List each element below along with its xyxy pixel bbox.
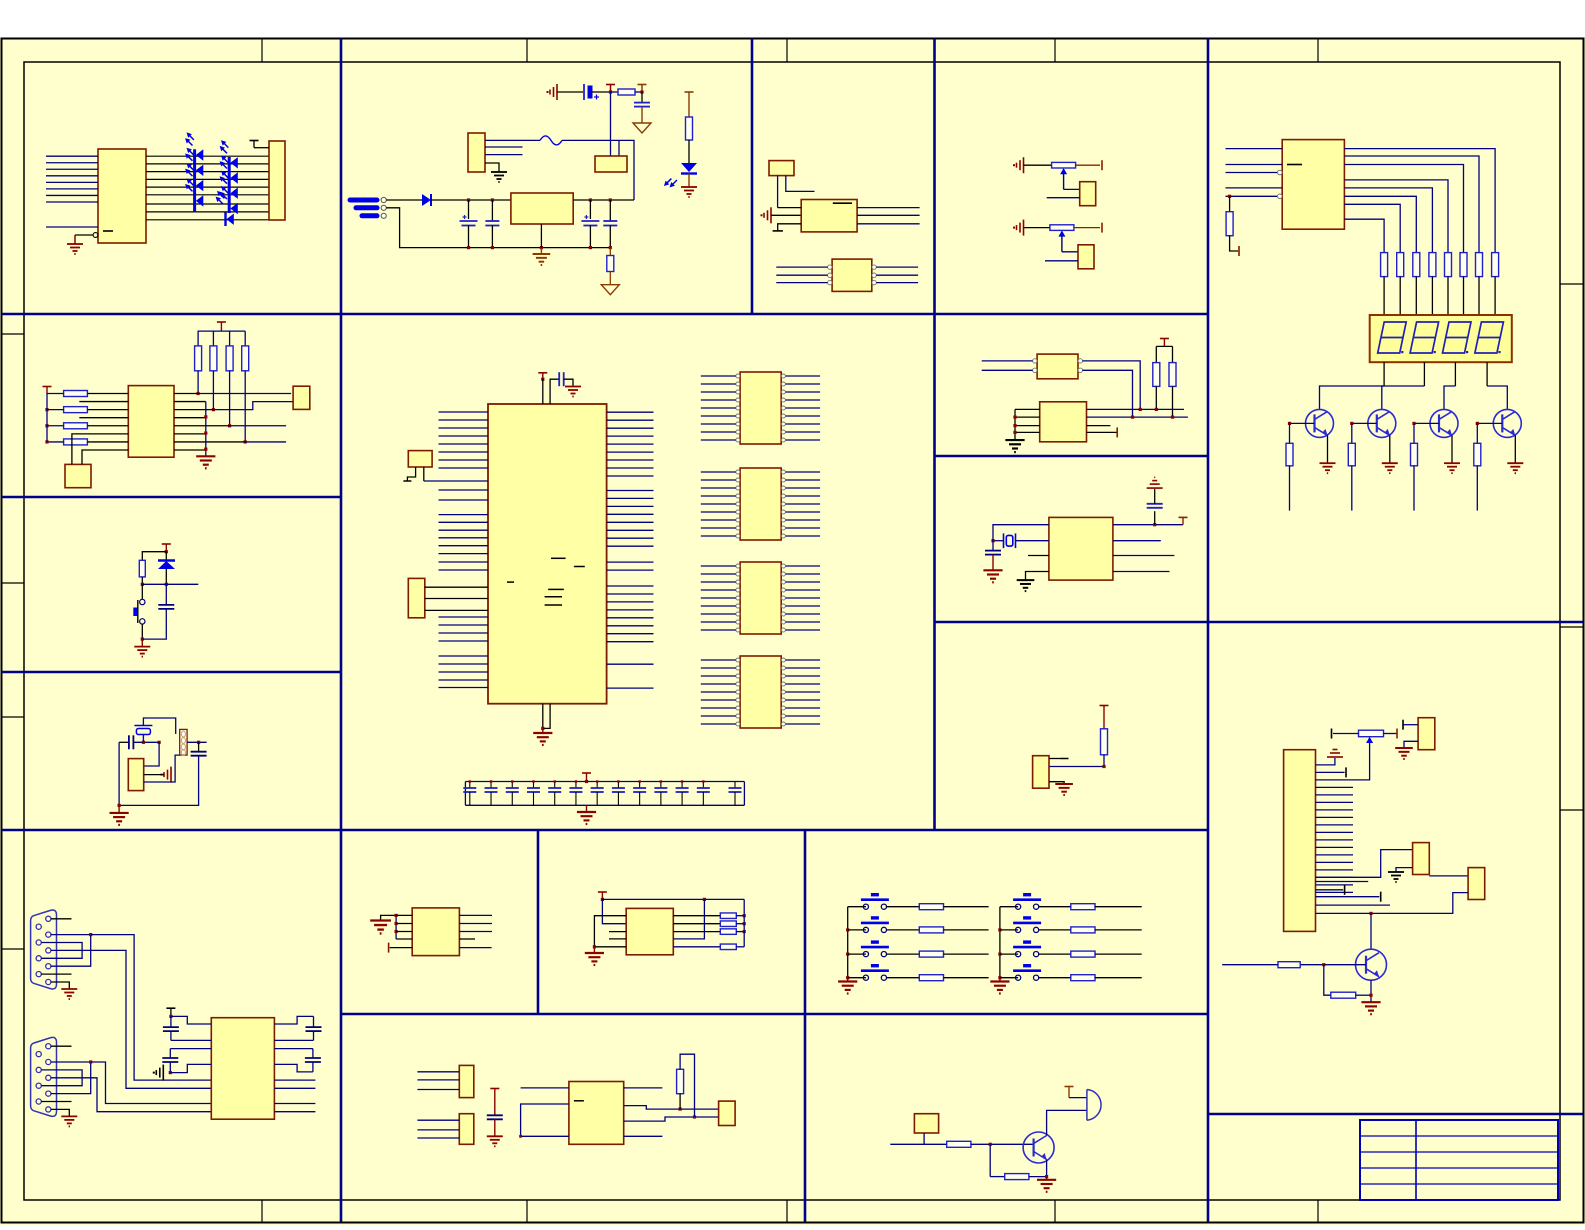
- pin circle: [46, 964, 51, 969]
- junction: [1288, 422, 1291, 425]
- wire: [607, 419, 654, 421]
- LED D6 arrows: [216, 154, 233, 171]
- power bar: [1116, 427, 1118, 437]
- wire: [1000, 977, 1018, 979]
- junction: [45, 408, 48, 411]
- component U6: [1078, 245, 1094, 269]
- wire: [688, 174, 690, 188]
- wire: [229, 371, 231, 426]
- wire: [491, 226, 493, 248]
- pin circle: [736, 682, 740, 686]
- wire: [72, 434, 128, 465]
- U7 pin circle: [1278, 170, 1283, 175]
- wire: [673, 915, 720, 917]
- pin circle: [781, 414, 785, 418]
- transistor Q6: [1356, 949, 1387, 980]
- wire: [87, 441, 128, 443]
- wire: [46, 226, 98, 228]
- capacitor C6: [559, 372, 564, 386]
- wire: [635, 91, 642, 93]
- wire: [786, 659, 821, 661]
- ground: [1507, 463, 1523, 473]
- wire: [1095, 977, 1142, 979]
- wire: [540, 224, 542, 248]
- wire: [609, 931, 626, 933]
- wire: [624, 1087, 663, 1089]
- wire: [439, 467, 489, 469]
- resistor network RN4: [740, 656, 781, 728]
- wire: [146, 219, 269, 221]
- junction: [679, 1108, 682, 1111]
- wire: [1226, 187, 1283, 189]
- digit 3: [1443, 322, 1472, 353]
- wire: [1344, 219, 1384, 252]
- resistor R4: [607, 256, 614, 272]
- wire: [778, 224, 802, 231]
- wire: [776, 266, 827, 268]
- ground: [487, 1136, 503, 1146]
- wire: [1049, 755, 1104, 767]
- LED D9: [681, 163, 697, 172]
- wire: [786, 495, 821, 497]
- pin circle: [46, 979, 51, 984]
- pin circle: [828, 280, 832, 284]
- wire: [439, 624, 489, 626]
- wire: [923, 1133, 925, 1144]
- wire: [1384, 733, 1398, 735]
- power VCC: [1100, 705, 1109, 707]
- wire: [1316, 884, 1354, 886]
- junction: [554, 780, 556, 782]
- junction: [846, 928, 849, 931]
- power bar: [1396, 729, 1398, 739]
- wire: [1316, 850, 1413, 878]
- wire: [485, 146, 523, 148]
- junction: [617, 780, 619, 782]
- wire: [1316, 904, 1391, 906]
- resistor R6: [1381, 253, 1388, 277]
- junction: [197, 392, 200, 395]
- wire: [1046, 1160, 1048, 1177]
- wire: [171, 1039, 211, 1041]
- wire: [386, 199, 422, 201]
- pin circle: [781, 666, 785, 670]
- pin circle: [46, 1059, 51, 1064]
- pin circle: [736, 406, 740, 410]
- wire: [244, 331, 246, 346]
- wire: [542, 379, 544, 404]
- ground: [1395, 748, 1413, 759]
- wire: [1316, 831, 1354, 833]
- wire: [274, 1079, 315, 1081]
- pin circle: [781, 604, 785, 608]
- wire: [146, 194, 269, 196]
- wire: [205, 402, 207, 457]
- ground: [838, 982, 857, 994]
- capacitor C20: [697, 782, 710, 806]
- wire: [439, 663, 489, 665]
- wire: [118, 742, 120, 805]
- power bar: [1101, 160, 1103, 170]
- pin circle: [781, 682, 785, 686]
- wire: [624, 1135, 663, 1137]
- wire: [439, 521, 489, 523]
- pin circle: [1033, 359, 1037, 363]
- wire: [165, 569, 167, 584]
- wire: [786, 613, 821, 615]
- battery BT1: [584, 84, 599, 100]
- zone tick top x787: [786, 39, 788, 63]
- wire: [1014, 409, 1016, 440]
- capacitor C16: [612, 782, 625, 806]
- U7 pin circle: [1278, 194, 1283, 199]
- wire: [46, 162, 98, 164]
- power VCC: [582, 772, 591, 774]
- wire: [1290, 422, 1315, 424]
- junction: [541, 378, 544, 381]
- wire: [46, 188, 98, 190]
- wire: [1316, 891, 1354, 893]
- wire: [701, 431, 736, 433]
- wire: [701, 511, 736, 513]
- zone tick top x1055: [1054, 39, 1056, 63]
- IC U9: [128, 386, 174, 458]
- wire: [1289, 423, 1291, 443]
- wire: [786, 691, 821, 693]
- zone tick right y627: [1560, 626, 1583, 628]
- pin circle: [1033, 368, 1037, 372]
- resistor R35: [919, 975, 943, 981]
- wire: [51, 935, 91, 967]
- wire: [1463, 277, 1465, 315]
- junction: [1369, 912, 1372, 915]
- junction: [1171, 416, 1174, 419]
- wire: [887, 929, 920, 931]
- wire: [174, 417, 206, 419]
- wire: [989, 1144, 991, 1176]
- wiper arrow: [1058, 230, 1065, 236]
- component U23: [1033, 756, 1049, 789]
- wire: [777, 176, 779, 208]
- resistor R7: [1397, 253, 1404, 277]
- junction: [244, 440, 247, 443]
- divider v x538: [537, 830, 540, 1014]
- wire: [1447, 277, 1449, 315]
- button S6: [861, 966, 889, 981]
- wire: [485, 154, 523, 156]
- LED D8: [230, 203, 237, 214]
- no-connect bar: [1345, 767, 1347, 777]
- pin circle: [736, 658, 740, 662]
- wire: [701, 659, 736, 661]
- IC U3: [801, 200, 857, 232]
- wire: [1414, 422, 1439, 424]
- pin circle: [36, 940, 41, 945]
- pin circle: [872, 280, 876, 284]
- wire: [701, 535, 736, 537]
- wire: [609, 938, 626, 940]
- component U5: [1080, 182, 1096, 206]
- wire: [396, 923, 412, 925]
- ground: [1037, 1180, 1056, 1192]
- resistor R3: [686, 117, 693, 140]
- power VCC: [217, 321, 226, 323]
- wire: [1024, 227, 1050, 229]
- pin circle: [736, 706, 740, 710]
- wire: [607, 609, 654, 611]
- wire: [944, 953, 989, 955]
- capacitor C3: [485, 221, 499, 226]
- wire: [607, 663, 654, 665]
- wire: [198, 393, 291, 395]
- pin circle: [781, 390, 785, 394]
- wire: [274, 1048, 313, 1050]
- wire: [701, 471, 736, 473]
- capacitor C10: [485, 782, 498, 806]
- wire: [999, 907, 1001, 978]
- junction: [743, 922, 746, 925]
- pin circle: [781, 478, 785, 482]
- wire: [1156, 345, 1172, 347]
- push button S2: [140, 599, 145, 624]
- zone tick left y583: [2, 582, 25, 584]
- junction: [640, 90, 643, 93]
- wire: [46, 194, 98, 196]
- pin circle: [781, 398, 785, 402]
- pin circle: [36, 1067, 41, 1072]
- wire: [439, 514, 489, 516]
- ground: [1055, 784, 1073, 795]
- wire: [1026, 572, 1049, 581]
- wire: [607, 451, 654, 453]
- wire: [1494, 277, 1496, 315]
- resistor R21: [242, 346, 249, 371]
- wire: [1344, 156, 1479, 253]
- resistor R32: [919, 904, 943, 910]
- junction: [204, 415, 207, 418]
- capacitor C1: [634, 103, 650, 107]
- wire: [562, 140, 634, 200]
- ground: [565, 387, 581, 397]
- wire: [743, 899, 745, 946]
- capacitor C14: [569, 782, 582, 806]
- wire: [174, 425, 230, 427]
- wire: [701, 683, 736, 685]
- wire: [1226, 148, 1283, 150]
- ground: [110, 805, 129, 825]
- wire: [876, 266, 918, 268]
- junction: [169, 1071, 172, 1074]
- capacitor C31: [1147, 489, 1163, 525]
- wire: [144, 755, 180, 782]
- resistor R45: [1169, 363, 1176, 387]
- component C7 box: [408, 451, 432, 467]
- wire: [1316, 869, 1354, 871]
- wire: [459, 914, 492, 916]
- capacitor C26: [162, 1049, 178, 1073]
- wire: [786, 519, 821, 521]
- connector J9 (LCD): [1284, 750, 1316, 932]
- junction: [585, 780, 588, 783]
- wire: [142, 552, 166, 561]
- pin circle: [46, 1075, 51, 1080]
- wire: [607, 513, 654, 515]
- pin circle: [736, 572, 740, 576]
- wire: [142, 583, 198, 585]
- wire: [245, 441, 286, 443]
- zone tick bottom x787: [786, 1200, 788, 1222]
- wire: [468, 200, 470, 219]
- wire: [786, 511, 821, 513]
- wire: [786, 487, 821, 489]
- wire: [439, 632, 489, 634]
- pin circle: [736, 430, 740, 434]
- pin circle: [781, 564, 785, 568]
- wire: [1396, 868, 1413, 872]
- button S8: [1013, 918, 1041, 933]
- wire: [1415, 277, 1417, 315]
- wire: [1316, 824, 1354, 826]
- pin circle: [872, 273, 876, 277]
- U8 mark: [574, 566, 585, 568]
- wire: [390, 947, 413, 949]
- wire: [212, 371, 214, 410]
- LED D2 arrows: [181, 146, 198, 163]
- wire: [1320, 386, 1385, 409]
- junction: [89, 1060, 92, 1063]
- wire: [1477, 422, 1502, 424]
- resistor R27: [720, 913, 736, 919]
- wire: [786, 589, 821, 591]
- wire: [1087, 425, 1111, 427]
- wire: [91, 1062, 212, 1104]
- wire: [1045, 260, 1078, 262]
- resistor R13: [1492, 253, 1499, 277]
- pin circle: [736, 674, 740, 678]
- wire: [1095, 929, 1142, 931]
- wire: [701, 407, 736, 409]
- wire: [1230, 236, 1239, 251]
- wire: [776, 274, 827, 276]
- wire: [1316, 839, 1354, 841]
- pin circle: [781, 714, 785, 718]
- wire: [993, 540, 1004, 542]
- wire: [464, 782, 466, 806]
- pin circle: [781, 690, 785, 694]
- pin circle: [1078, 359, 1082, 363]
- wire: [1039, 953, 1071, 955]
- wire: [187, 741, 207, 743]
- wire: [607, 569, 654, 571]
- wire: [857, 207, 920, 209]
- ground: [61, 989, 77, 999]
- wire: [786, 565, 821, 567]
- pin circle: [46, 932, 51, 937]
- pin circle: [736, 722, 740, 726]
- junction: [469, 780, 471, 782]
- pin circle: [46, 1091, 51, 1096]
- pin circle: [736, 604, 740, 608]
- component C8 box: [408, 578, 425, 617]
- wire: [79, 417, 128, 419]
- wire: [51, 950, 211, 1088]
- wire: [1344, 196, 1416, 252]
- wire: [1403, 724, 1418, 726]
- junction: [165, 583, 168, 586]
- resistor R8: [1413, 253, 1420, 277]
- wire: [1062, 251, 1078, 253]
- power VCC: [166, 1007, 175, 1009]
- wire: [1095, 953, 1142, 955]
- resistor R5: [1226, 212, 1233, 236]
- pin circle: [781, 374, 785, 378]
- wire: [1226, 164, 1283, 166]
- wire: [274, 1087, 315, 1089]
- junction: [204, 432, 207, 435]
- wire: [944, 929, 989, 931]
- wire: [607, 687, 654, 689]
- resistor network RN1: [740, 372, 781, 444]
- pin circle: [781, 698, 785, 702]
- wire: [1000, 906, 1018, 908]
- wire: [607, 521, 654, 523]
- pin circle: [381, 213, 386, 218]
- resistor R30: [720, 944, 736, 950]
- wire: [701, 667, 736, 669]
- resistor network RN3: [740, 562, 781, 634]
- pin circle: [736, 510, 740, 514]
- junction: [1369, 994, 1372, 997]
- wire: [87, 409, 128, 411]
- ground: [196, 456, 215, 468]
- junction: [491, 198, 494, 201]
- junction: [519, 1135, 522, 1138]
- signal ground: [153, 1065, 164, 1081]
- wire: [786, 699, 821, 701]
- wire: [439, 499, 489, 501]
- wire: [607, 561, 654, 563]
- wire: [786, 723, 821, 725]
- wire: [990, 1176, 1005, 1178]
- wire: [786, 407, 821, 409]
- power VCC: [638, 84, 647, 86]
- pin circle: [781, 422, 785, 426]
- wire: [607, 427, 654, 429]
- capacitor C23: [119, 735, 133, 749]
- junction: [593, 945, 596, 948]
- wire: [607, 475, 654, 477]
- wire: [144, 742, 159, 766]
- resistor R23: [64, 407, 88, 413]
- wire: [439, 443, 489, 445]
- junction: [998, 928, 1001, 931]
- power VCC: [1160, 338, 1169, 340]
- wire: [848, 953, 866, 955]
- ground: [1017, 580, 1035, 591]
- junction: [395, 930, 398, 933]
- power bar: [388, 943, 390, 953]
- wire: [786, 597, 821, 599]
- wire: [786, 415, 821, 417]
- wire: [395, 915, 397, 939]
- IC U11 (MAX232): [211, 1018, 274, 1119]
- junction: [1153, 523, 1156, 526]
- wire: [47, 425, 64, 427]
- ground: [990, 982, 1009, 994]
- wire: [439, 451, 489, 453]
- wiper arrow: [1060, 168, 1067, 174]
- connector J2 pin3: [362, 213, 377, 218]
